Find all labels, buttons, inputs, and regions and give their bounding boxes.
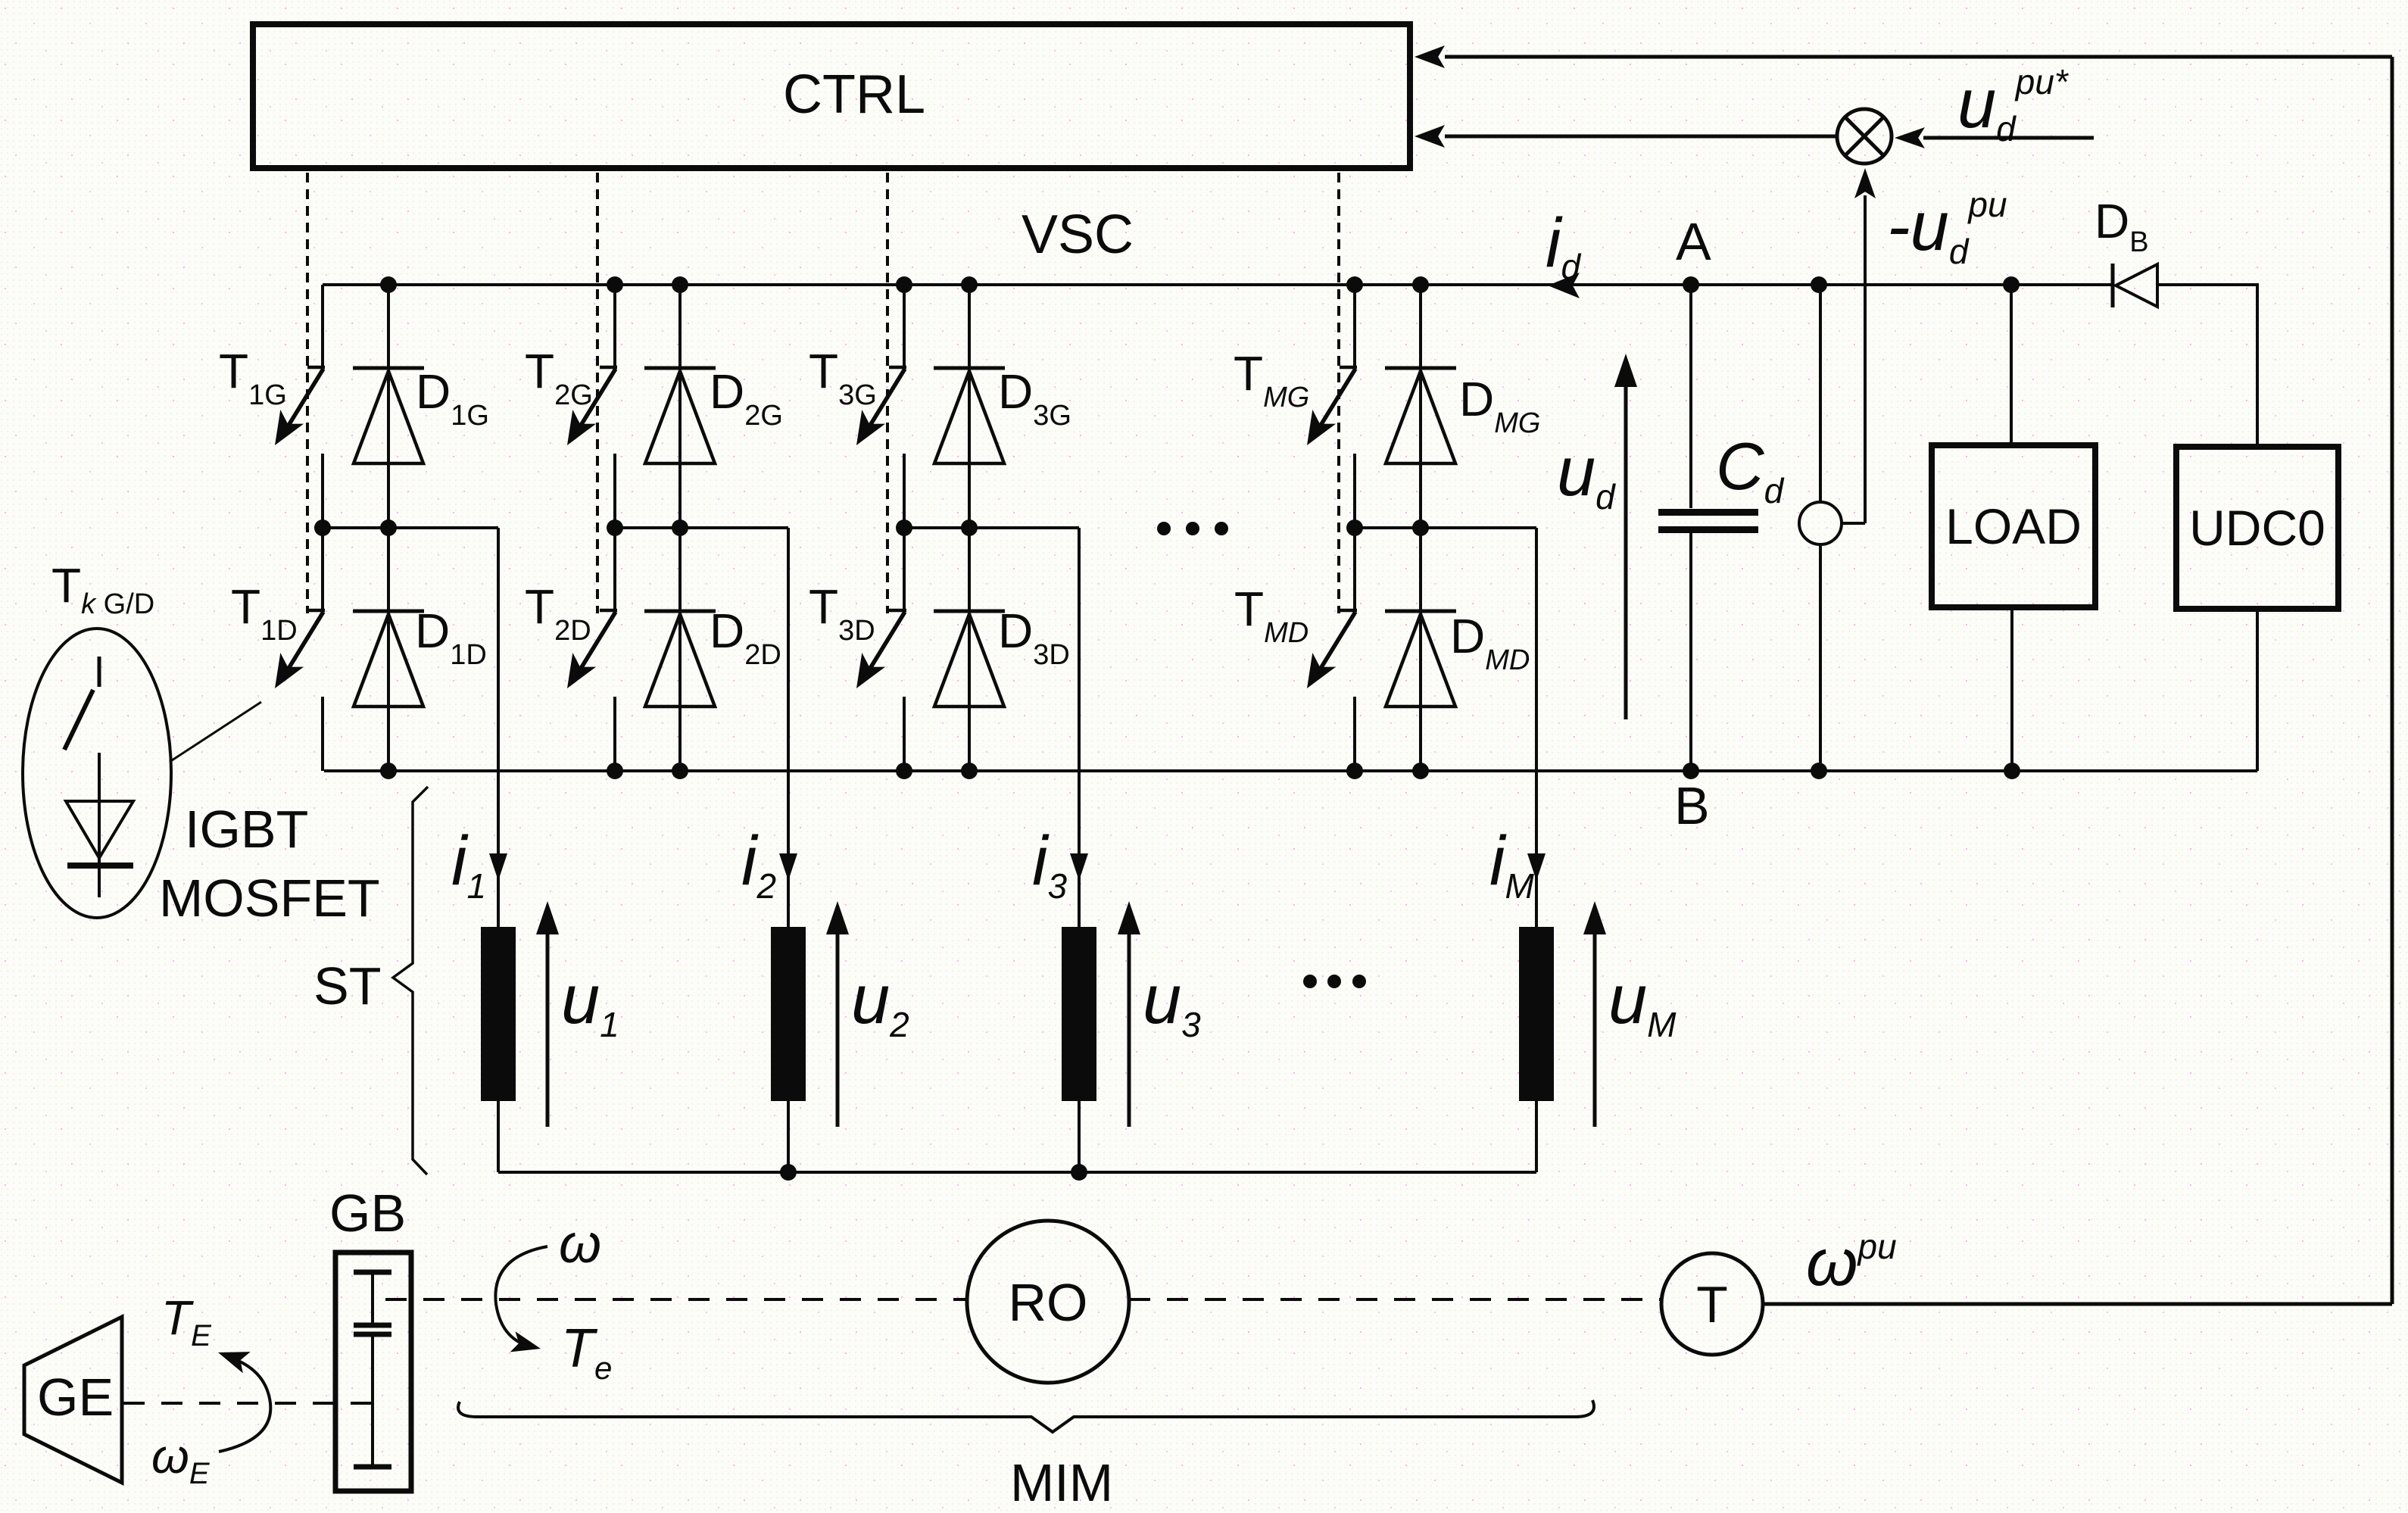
diode D3D <box>934 528 1005 771</box>
detail diode symbol inside ellipse <box>66 753 133 897</box>
voltage arrow u_1 <box>536 901 559 1127</box>
node midpoint dots cell M <box>1346 519 1429 536</box>
label T3D <box>809 579 875 647</box>
label RO <box>1009 1273 1088 1332</box>
arrow -u_d_pu into multiplier <box>1854 168 1876 198</box>
brace MIM (machine group) <box>458 1400 1594 1432</box>
label GB <box>329 1184 406 1243</box>
wire LOAD to bus B <box>2010 607 2013 771</box>
node star point dots <box>780 1164 1087 1181</box>
transistor switch T1G <box>275 285 325 528</box>
label node B <box>1674 776 1710 835</box>
stator winding bar u_2 <box>771 927 806 1101</box>
block LOAD <box>1932 445 2095 607</box>
label T1D <box>231 579 298 647</box>
capacitor C_d <box>1658 285 1758 771</box>
svg-text:MOSFET: MOSFET <box>159 869 380 928</box>
stator winding bar u_M <box>1519 927 1554 1101</box>
diode D1G <box>353 285 424 528</box>
label T_k G/D <box>51 558 154 620</box>
wire stator 1 to star point <box>497 1101 500 1172</box>
stator winding bar u_1 <box>481 927 516 1101</box>
wire phase output 1 to stator <box>497 771 500 927</box>
label GE <box>37 1368 114 1427</box>
label -u_d^pu <box>1887 185 2007 271</box>
wire stator M to star point <box>1535 1101 1538 1172</box>
label i_1 <box>451 822 486 906</box>
arrow into CTRL (speed) <box>1415 45 1445 68</box>
label i_2 <box>741 822 776 906</box>
current arrow i_d on bus A <box>1548 273 1580 298</box>
label TMD <box>1234 582 1308 649</box>
label C_d <box>1716 429 1785 510</box>
voltage arrow u_M <box>1583 901 1606 1127</box>
block UDC0 <box>2176 447 2338 609</box>
gearbox GB box <box>335 1253 411 1491</box>
controller CTRL box <box>253 24 1410 168</box>
wire DC bus A (top rail) <box>323 283 2257 447</box>
wire gate drive T1 (dashed) from CTRL <box>306 173 309 613</box>
label i_3 <box>1032 822 1067 906</box>
label D1D <box>415 604 487 671</box>
wire omega_pu from tachometer <box>1763 1302 2392 1306</box>
gearbox shafts symbol <box>354 1272 391 1467</box>
label T2G <box>525 344 593 411</box>
label D3G <box>998 364 1071 432</box>
wire stator 3 to star point <box>1078 1101 1081 1172</box>
label i_d <box>1546 204 1581 286</box>
detail ellipse T_k G/D (IGBT/MOSFET symbol) <box>23 629 171 918</box>
transistor switch T1D <box>275 528 325 771</box>
tachometer T circle <box>1661 1253 1763 1355</box>
current arrow i_M <box>1527 853 1546 881</box>
label DMG <box>1459 372 1540 439</box>
svg-text:CTRL: CTRL <box>783 64 925 125</box>
svg-text:VSC: VSC <box>1022 204 1134 265</box>
svg-text:A: A <box>1676 212 1711 271</box>
transistor switch T2D <box>567 528 617 771</box>
label u_1 <box>561 961 619 1044</box>
wire DC bus B (bottom rail) <box>324 609 2257 771</box>
current arrow i_3 <box>1070 853 1088 881</box>
diode DMD <box>1385 528 1456 771</box>
ellipsis dots between stator 3 and M <box>1303 975 1366 988</box>
svg-text:GB: GB <box>329 1184 406 1243</box>
current arrow i_2 <box>779 853 797 881</box>
label ST <box>313 956 381 1015</box>
label T (tachometer) <box>1696 1276 1728 1334</box>
wire stator star-point rail <box>498 1171 1536 1174</box>
svg-text:ω: ω <box>559 1214 601 1274</box>
detail switch symbol inside ellipse <box>64 657 99 750</box>
voltage arrow u_3 <box>1118 901 1140 1127</box>
rotor RO circle <box>967 1221 1129 1383</box>
wire shaft GB to RO (dashed) <box>385 1298 967 1301</box>
label u_d <box>1557 433 1616 516</box>
label i_M <box>1489 822 1534 906</box>
label DMD <box>1450 609 1530 676</box>
voltage arrow u_d <box>1614 354 1637 719</box>
transistor switch T3G <box>856 285 906 528</box>
wire midpoint rail cell 3 <box>904 528 1079 771</box>
wire multiplier to CTRL <box>1445 135 1837 139</box>
arrow u_d^pu* into multiplier <box>1895 127 1925 148</box>
voltage arrow u_2 <box>826 901 849 1127</box>
wire midpoint rail cell 2 <box>615 528 788 771</box>
label D2D <box>710 604 781 671</box>
diode D2G <box>644 285 716 528</box>
label D2G <box>710 364 783 432</box>
node A junction dots on bus <box>380 276 2020 293</box>
torque arrow omega / T_e (curved) <box>495 1246 547 1352</box>
diode D2D <box>644 528 716 771</box>
label D3D <box>998 604 1070 671</box>
node midpoint dots cell 2 <box>607 519 688 536</box>
wire speed feedback into CTRL <box>1445 55 2392 59</box>
label node A <box>1676 212 1711 271</box>
diode D1D <box>353 528 424 771</box>
wire u_d^pu* input to multiplier <box>1923 136 2094 140</box>
svg-text:LOAD: LOAD <box>1945 498 2082 554</box>
label u_M <box>1608 961 1677 1044</box>
svg-text:RO: RO <box>1009 1273 1088 1332</box>
label T3G <box>809 344 877 411</box>
wire phase output M to stator <box>1535 771 1538 927</box>
pointer line from ellipse to T1D <box>170 702 261 762</box>
transistor switch TMG <box>1307 285 1357 528</box>
node midpoint dots cell 1 <box>314 519 397 536</box>
wire gate drive TM (dashed) from CTRL <box>1337 173 1340 613</box>
svg-text:ST: ST <box>313 956 381 1015</box>
generator GE symbol <box>24 1317 122 1483</box>
wire gate drive T2 (dashed) from CTRL <box>596 173 599 613</box>
wire shaft GE to GB (dashed) <box>123 1402 371 1405</box>
label omega^pu <box>1806 1224 1897 1299</box>
label omega <box>559 1214 601 1274</box>
diode D3G <box>934 285 1005 528</box>
brace ST (stator group) <box>393 787 428 1175</box>
node midpoint dots cell 3 <box>896 519 978 536</box>
label T_E <box>161 1290 212 1352</box>
label VSC <box>1022 204 1134 265</box>
multiplier circle (x) <box>1837 109 1892 164</box>
label CTRL <box>783 64 925 125</box>
svg-text:GE: GE <box>37 1368 114 1427</box>
transistor switch T3D <box>856 528 906 771</box>
label TMG <box>1234 346 1309 413</box>
torque arrow T_E / omega_E (curved) <box>218 1352 270 1452</box>
stator winding bar u_3 <box>1062 927 1096 1101</box>
wire sensor tap to multiplier <box>1842 195 1865 523</box>
label UDC0 <box>2189 500 2325 556</box>
svg-text:IGBT: IGBT <box>185 800 308 859</box>
label T_e <box>561 1318 612 1386</box>
wire midpoint rail cell 1 <box>323 528 498 771</box>
diode D_B <box>2113 264 2157 307</box>
wire stator 2 to star point <box>787 1101 790 1172</box>
wire midpoint rail cell M <box>1355 528 1536 771</box>
arrow into CTRL (voltage loop) <box>1415 125 1445 148</box>
label u_3 <box>1143 961 1201 1044</box>
voltage sensor circle <box>1799 285 1842 771</box>
ellipsis dots between cell 3 and M (top) <box>1157 522 1228 535</box>
label omega_E <box>151 1429 211 1490</box>
wire phase output 2 to stator <box>787 771 790 927</box>
label MOSFET <box>159 869 380 928</box>
wire gate drive T3 (dashed) from CTRL <box>886 173 889 613</box>
node B junction dots on bus <box>380 763 2020 779</box>
wire shaft RO to T (dashed) <box>1129 1298 1661 1301</box>
wire phase output 3 to stator <box>1078 771 1081 927</box>
svg-text:B: B <box>1674 776 1710 835</box>
label D1G <box>416 364 489 432</box>
current arrow i_1 <box>489 853 507 881</box>
label D_B <box>2095 194 2149 258</box>
label T1G <box>219 344 287 411</box>
svg-text:T: T <box>1696 1276 1728 1334</box>
label IGBT <box>185 800 308 859</box>
label u_d^pu* <box>1957 62 2070 148</box>
label LOAD <box>1945 498 2082 554</box>
svg-text:MIM: MIM <box>1010 1453 1113 1512</box>
diode DMG <box>1385 285 1456 528</box>
wire bus A to LOAD <box>2010 285 2013 445</box>
wire right feedback riser <box>2391 57 2394 1304</box>
label u_2 <box>851 961 909 1044</box>
svg-text:UDC0: UDC0 <box>2189 500 2325 556</box>
transistor switch TMD <box>1307 528 1357 771</box>
transistor switch T2G <box>567 285 617 528</box>
label MIM <box>1010 1453 1113 1512</box>
label T2D <box>525 579 591 647</box>
